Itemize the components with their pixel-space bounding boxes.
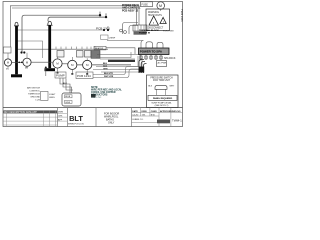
wire W47 xyxy=(106,48,135,54)
svg-text:BLT: BLT xyxy=(69,114,83,123)
svg-text:DATE: DATE xyxy=(132,110,138,113)
node dot B xyxy=(105,16,107,18)
pump motor P5 xyxy=(83,60,92,69)
revision table lines xyxy=(3,117,57,125)
wire elbow down3 xyxy=(66,79,73,91)
pump motor P1 xyxy=(4,59,11,66)
wire top L1 xyxy=(10,6,139,47)
svg-text:!: ! xyxy=(153,21,154,25)
wire W59 xyxy=(100,58,135,60)
wire W54 xyxy=(97,55,140,62)
stub P2 top xyxy=(26,53,28,58)
right cells grid xyxy=(132,108,183,127)
svg-text:(SEE NOTE 2): (SEE NOTE 2) xyxy=(155,105,169,107)
svg-text:ONLY 75C: ONLY 75C xyxy=(91,97,102,99)
motor M circle xyxy=(157,2,165,10)
svg-text:AIR SWITCH: AIR SWITCH xyxy=(27,87,40,90)
wire loop L3 xyxy=(22,12,100,53)
wire from PCB1234 right y74.5 xyxy=(93,67,139,75)
svg-text:REV DESCRIPTION: REV DESCRIPTION DATE APP xyxy=(4,111,37,114)
lamp inner label 2 xyxy=(65,100,73,103)
transformer T1 dark block xyxy=(91,51,100,59)
svg-text:4-6-92: 4-6-92 xyxy=(132,115,139,117)
svg-text:DWN: DWN xyxy=(58,112,63,114)
circle under stubs xyxy=(58,68,88,73)
svg-text:TWM 2301: TWM 2301 xyxy=(180,9,184,22)
svg-text:CHKD: CHKD xyxy=(151,111,158,113)
label box PCB1234 xyxy=(76,72,93,79)
svg-text:DWN: DWN xyxy=(142,111,147,113)
stub P4 top xyxy=(71,57,73,60)
relay K2 box xyxy=(77,51,84,58)
wire bus Y64 xyxy=(12,62,131,65)
svg-text:HIGH VOLTS: HIGH VOLTS xyxy=(148,15,162,17)
power to spa strip xyxy=(139,48,170,55)
dark tag J1 xyxy=(91,94,96,98)
dwn chk cells xyxy=(57,108,67,127)
svg-text:PUMP: PUMP xyxy=(56,74,65,78)
wire L5 xyxy=(17,26,108,30)
heater element E1 body xyxy=(15,26,18,75)
svg-text:PCB 1234: PCB 1234 xyxy=(77,74,91,78)
small box near note xyxy=(41,92,49,101)
svg-text:AC PWR: AC PWR xyxy=(158,62,167,65)
title block xyxy=(3,108,183,127)
left border box LB1 xyxy=(3,47,11,53)
svg-text:TIMER BOX: TIMER BOX xyxy=(28,94,41,96)
label box PUMP2 xyxy=(55,72,66,78)
component cluster small xyxy=(101,35,109,39)
terminal circle TC2 xyxy=(124,31,127,34)
stub c2 bottom xyxy=(26,66,28,68)
svg-text:FOR TWM: FOR TWM xyxy=(163,31,174,33)
node dot C xyxy=(103,29,105,31)
inset stubs xyxy=(156,89,165,95)
svg-text:SPA PACK: SPA PACK xyxy=(164,57,176,60)
relay K3 box xyxy=(85,51,92,58)
relay K1 box xyxy=(57,51,64,58)
pump motor P4 xyxy=(68,60,77,69)
rail ticks xyxy=(56,47,95,50)
wire top L2 xyxy=(12,8,137,25)
terminal circle TC1 xyxy=(120,29,123,32)
node dot F xyxy=(23,51,25,53)
node dot D xyxy=(107,29,109,31)
svg-text:PANEL REQUIRED: PANEL REQUIRED xyxy=(153,97,173,100)
heater element E2 body xyxy=(48,25,51,68)
wire G down xyxy=(45,68,47,77)
svg-text:HEATER: HEATER xyxy=(95,47,104,50)
node dot H xyxy=(18,62,20,64)
svg-text:TWM-1: TWM-1 xyxy=(172,119,182,123)
svg-text:BLK: BLK xyxy=(148,86,153,88)
svg-text:PCB ASSY 12: PCB ASSY 12 xyxy=(122,9,139,12)
node dot E xyxy=(20,51,22,53)
pump motor P3 xyxy=(53,59,62,68)
svg-text:WARNING: WARNING xyxy=(148,11,159,14)
wire fan 1 xyxy=(96,52,131,58)
heater element E1 foot xyxy=(11,74,22,77)
wire fan 3 xyxy=(93,58,142,70)
svg-text:M: M xyxy=(159,4,162,8)
svg-text:LUG: LUG xyxy=(36,100,41,102)
fuse F1 xyxy=(140,55,142,61)
wire elbow to pack 1 xyxy=(123,23,139,35)
revision header dark band xyxy=(3,110,57,113)
svg-text:ONLY: ONLY xyxy=(108,122,115,125)
svg-text:CHK: CHK xyxy=(58,115,63,117)
wire fan 2 xyxy=(96,56,138,67)
svg-text:FOR TWM UNIT: FOR TWM UNIT xyxy=(153,80,171,82)
node dot I xyxy=(21,62,23,64)
wire bundle dark band xyxy=(108,60,135,62)
svg-text:WHT HTR: WHT HTR xyxy=(104,76,114,78)
pump motor P2 xyxy=(23,58,31,66)
svg-text:POWER TO SPA: POWER TO SPA xyxy=(140,50,163,54)
title block top line xyxy=(3,107,183,109)
node dot A xyxy=(99,14,101,16)
coil core dark xyxy=(139,67,145,73)
wire elbow down1 xyxy=(60,78,70,93)
svg-text:CONTROL: CONTROL xyxy=(29,91,40,93)
wire from PCB1234 right y77.5 xyxy=(93,69,139,78)
power strip hooks xyxy=(107,41,144,49)
wire elbow down2 xyxy=(63,78,72,93)
svg-text:DWG NO: DWG NO xyxy=(172,111,181,113)
svg-text:M: M xyxy=(7,61,9,65)
fuse F3 xyxy=(150,55,152,61)
wire L6 xyxy=(17,41,43,58)
heater element E1 cap xyxy=(14,22,19,26)
wire W72 xyxy=(101,71,140,73)
svg-text:APPROVED: APPROVED xyxy=(160,110,172,113)
stub P3 top xyxy=(57,57,59,59)
inset switch symbol xyxy=(155,86,167,90)
svg-text:B.W.: B.W. xyxy=(151,115,156,117)
stub P5 top xyxy=(86,58,88,60)
svg-text:LIGHT: LIGHT xyxy=(49,94,56,96)
inset inner box xyxy=(148,95,177,100)
heater element E2 foot xyxy=(45,68,56,71)
warning triangle 1 xyxy=(149,16,158,25)
svg-text:LEBEN CO.: LEBEN CO. xyxy=(132,119,144,121)
svg-text:WHT: WHT xyxy=(170,86,175,88)
label box on wire xyxy=(94,46,106,50)
svg-text:T.M.: T.M. xyxy=(142,115,146,117)
svg-text:FUSE: FUSE xyxy=(142,4,149,7)
terminal cluster xyxy=(133,25,147,31)
warning box xyxy=(146,9,170,31)
heater element E2 cap xyxy=(47,21,53,25)
svg-text:TERMINAL BLOCK: TERMINAL BLOCK xyxy=(139,29,159,32)
svg-text:APP: APP xyxy=(58,118,63,121)
fuse F4 xyxy=(155,55,157,61)
svg-text:WHIRLPOOL LTD: WHIRLPOOL LTD xyxy=(68,123,85,125)
svg-text:LENS: LENS xyxy=(65,102,71,104)
border frame xyxy=(3,2,183,127)
svg-text:GROUND: GROUND xyxy=(30,97,40,99)
wire L7 xyxy=(17,48,108,50)
wire loop L4 xyxy=(48,13,106,21)
warning triangle 2 xyxy=(160,17,166,23)
wire elbow to pack 2 xyxy=(129,26,138,35)
svg-text:BLK HTR: BLK HTR xyxy=(104,73,113,75)
svg-text:LENS: LENS xyxy=(49,97,55,99)
fuse F2 xyxy=(145,55,147,61)
pressure switch inset box xyxy=(147,75,179,108)
coil wires xyxy=(139,60,147,74)
lamp inner label 1 xyxy=(65,95,73,98)
stub c1 bottom xyxy=(7,66,9,68)
node dot G xyxy=(45,67,47,69)
svg-text:CRIMP: CRIMP xyxy=(109,37,116,39)
svg-text:BULB: BULB xyxy=(65,96,71,98)
svg-text:POWER IN: POWER IN xyxy=(139,32,150,34)
small box AC xyxy=(157,61,167,67)
lamp detail box xyxy=(62,93,81,106)
approval stamp dark xyxy=(157,120,170,124)
svg-text:PRESSURE SWITCH: PRESSURE SWITCH xyxy=(150,77,173,79)
label box top right xyxy=(141,2,153,7)
fuse F5 xyxy=(160,55,162,61)
svg-text:PCB 2301: PCB 2301 xyxy=(96,27,110,31)
